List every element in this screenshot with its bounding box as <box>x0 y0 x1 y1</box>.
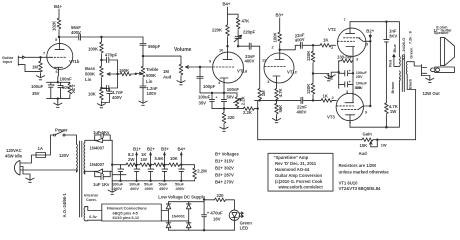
wire AC neutral <box>26 170 77 172</box>
resistor 8.2 2W <box>121 164 127 166</box>
svg-text:Lin: Lin <box>146 79 153 84</box>
transformer filament winding <box>83 208 86 221</box>
wire LV bottom rail <box>169 229 235 231</box>
svg-text:12W Out: 12W Out <box>423 91 441 96</box>
svg-text:220K: 220K <box>306 83 311 94</box>
resistor 5.6K filter <box>151 164 154 166</box>
wire cathode rail <box>352 57 354 93</box>
svg-text:50V: 50V <box>227 94 235 99</box>
svg-text:B3+: B3+ <box>276 13 284 18</box>
bridge rectifier 1N4001 <box>166 202 171 231</box>
resistor 1K 1W filter <box>137 164 140 166</box>
svg-text:(c)2010 G. Forrest Cook: (c)2010 G. Forrest Cook <box>275 179 323 184</box>
svg-text:unless marked otherwise: unless marked otherwise <box>339 170 390 175</box>
svg-text:2.2K: 2.2K <box>241 95 246 105</box>
svg-text:400V: 400V <box>112 95 122 100</box>
svg-text:1uF 1Kv: 1uF 1Kv <box>93 182 110 187</box>
svg-text:1M: 1M <box>32 65 38 70</box>
node plate VT1c <box>279 49 281 51</box>
cathode VT1c <box>273 75 280 77</box>
wire VT2 plate to OT <box>350 22 399 57</box>
svg-text:VT3: VT3 <box>327 115 335 120</box>
ground cathode network VT1b <box>54 102 62 107</box>
svg-text:Low Voltage DC Supply: Low Voltage DC Supply <box>158 194 206 199</box>
svg-text:Lin: Lin <box>85 77 92 82</box>
wire top rail tone stack <box>90 36 143 38</box>
svg-text:Hammond AO-44: Hammond AO-44 <box>275 167 310 172</box>
wire cathode bottom rail <box>212 108 243 110</box>
svg-text:400V: 400V <box>71 30 81 35</box>
resistor 1K grid stopper VT2 <box>313 44 320 46</box>
svg-text:7: 7 <box>344 17 346 22</box>
svg-text:550pF: 550pF <box>148 44 161 49</box>
capacitor 100uF 400V C2 <box>134 165 139 181</box>
grid VT1c dashed <box>265 66 287 68</box>
potentiometer 2.2K cathode trim <box>236 93 238 97</box>
svg-text:Brown: Brown <box>390 81 395 94</box>
wire to bridge <box>161 211 188 221</box>
capacitor 100nF 50V cathode <box>58 82 63 98</box>
svg-text:Blue: Blue <box>392 43 397 52</box>
svg-text:Green: Green <box>409 47 414 59</box>
svg-text:1W: 1W <box>390 109 397 114</box>
ground bass network <box>97 103 105 108</box>
svg-text:3: 3 <box>356 56 359 61</box>
svg-text:1W: 1W <box>141 157 148 162</box>
svg-text:Input: Input <box>3 59 13 64</box>
svg-text:7: 7 <box>349 121 351 126</box>
grid VT1b dashed <box>51 56 67 58</box>
svg-text:1A: 1A <box>38 146 43 151</box>
svg-text:7: 7 <box>43 51 45 56</box>
svg-text:16V: 16V <box>213 217 221 222</box>
control grid VT3 dashed <box>337 105 354 107</box>
node plate VT1b <box>58 36 60 38</box>
capacitor 4.7nF 400V <box>101 89 112 103</box>
svg-text:VT1 6U10: VT1 6U10 <box>339 181 359 186</box>
wire cathode top rail <box>200 92 237 94</box>
svg-text:B3+ 287V: B3+ 287V <box>215 173 234 178</box>
svg-text:2.2M: 2.2M <box>197 169 207 174</box>
capacitor 220pF variable boost <box>237 30 239 37</box>
svg-text:400V: 400V <box>297 110 307 115</box>
svg-text:VT1a: VT1a <box>237 69 248 74</box>
svg-text:9: 9 <box>209 58 212 63</box>
svg-text:+: + <box>215 95 218 100</box>
wire feedback bottom <box>258 139 362 141</box>
box title <box>268 153 333 191</box>
resistor 1M input <box>40 57 42 61</box>
capacitor 33nF 400V interstage <box>238 45 249 47</box>
wire secondary bottom to feedback <box>407 74 415 139</box>
capacitor 50uF 450V C5 <box>179 165 184 181</box>
svg-text:Aud: Aud <box>163 74 172 79</box>
svg-text:+ 470uF: + 470uF <box>207 211 223 216</box>
svg-text:309: 309 <box>355 85 362 90</box>
ground jack sleeve wire <box>22 65 41 72</box>
svg-text:47K: 47K <box>242 18 251 23</box>
wiper volume to grid VT1a <box>186 66 212 69</box>
ground treble <box>139 100 147 105</box>
svg-text:VT2&VT3 6BQ5/EL84: VT2&VT3 6BQ5/EL84 <box>339 186 382 191</box>
svg-text:1W: 1W <box>381 142 387 147</box>
ground cathode network <box>327 74 335 79</box>
svg-text:B2+: B2+ <box>147 147 155 152</box>
diode 1N4007 D1 <box>95 138 113 143</box>
resistor 4.7K 1W snubber <box>385 103 389 114</box>
screen grid VT3 dashed <box>342 108 359 110</box>
svg-text:B2+: B2+ <box>366 29 374 34</box>
svg-text:10: 10 <box>219 48 223 53</box>
wire secondary to jack <box>407 62 421 66</box>
svg-text:1N4007: 1N4007 <box>90 146 105 151</box>
svg-text:Bass: Bass <box>85 66 96 71</box>
box filament connections <box>102 204 162 221</box>
ground volume <box>177 80 185 85</box>
svg-text:400V: 400V <box>113 186 122 191</box>
capacitor 1nF 3KV snubber <box>384 22 389 103</box>
svg-text:+: + <box>152 167 155 172</box>
svg-text:100K: 100K <box>272 31 277 42</box>
svg-text:1K: 1K <box>323 38 329 43</box>
svg-text:4.7K: 4.7K <box>278 87 283 97</box>
capacitor 22nF 400V lower coupling <box>297 99 301 101</box>
AC plug <box>14 161 26 176</box>
cathode VT2 <box>346 47 355 58</box>
svg-text:2: 2 <box>331 45 334 50</box>
svg-text:Speaker: Speaker <box>434 30 449 35</box>
LED green <box>229 210 239 220</box>
capacitor bass lower bridge <box>101 60 117 91</box>
wire network bottom rail <box>47 99 70 103</box>
svg-text:1M: 1M <box>261 90 266 96</box>
ground grid leaks <box>325 76 333 81</box>
svg-text:Aud: Aud <box>359 151 368 156</box>
svg-text:10K: 10K <box>170 156 179 161</box>
svg-text:Resistors are 1/2W: Resistors are 1/2W <box>339 163 378 168</box>
svg-text:450V: 450V <box>145 186 154 191</box>
wire lower path <box>255 99 297 101</box>
resistor 220K grid VT3 <box>312 74 314 84</box>
wire plate node to coupling cap <box>59 36 77 38</box>
svg-text:220: 220 <box>217 193 225 198</box>
svg-text:102K: 102K <box>52 20 57 31</box>
svg-text:B3+: B3+ <box>161 147 169 152</box>
resistor 10K filter <box>165 164 169 166</box>
svg-text:5: 5 <box>55 37 58 42</box>
wire HV top to D1 <box>85 140 95 142</box>
svg-text:130-5W: 130-5W <box>337 55 353 60</box>
svg-text:220pF: 220pF <box>243 30 256 35</box>
svg-text:B+ Voltages: B+ Voltages <box>215 152 240 157</box>
capacitor 470uF 16V <box>203 198 205 200</box>
diode 1N4007 D2 <box>95 169 113 174</box>
svg-text:450V: 450V <box>159 186 168 191</box>
capacitor 50uF 450V C4 <box>162 165 167 181</box>
capacitor 50uF 450V C3 <box>148 165 153 181</box>
node grid/1M <box>39 56 41 58</box>
resistor 56K to ground <box>276 100 278 103</box>
wire rectifier output <box>112 140 126 181</box>
wire filament leads <box>85 206 102 220</box>
resistor 4.7K cathode VT1c <box>276 76 278 88</box>
svg-text:"Sparetime" Amp: "Sparetime" Amp <box>274 155 309 160</box>
svg-text:400V: 400V <box>130 186 139 191</box>
tube VT1c envelope <box>264 53 294 83</box>
resistor 1K grid stopper VT3 <box>312 99 314 101</box>
plate VT1a <box>227 46 229 59</box>
screen grid VT2 dashed <box>344 37 361 39</box>
svg-text:500K: 500K <box>146 73 157 78</box>
svg-text:220K: 220K <box>212 28 223 33</box>
svg-text:+: + <box>183 167 186 172</box>
label red center tap <box>393 54 400 66</box>
capacitor 56nF 400V coupling <box>77 36 79 38</box>
svg-text:220: 220 <box>228 115 236 120</box>
capacitor 22nF 400V upper coupling <box>301 42 303 48</box>
svg-text:B1+ 315V: B1+ 315V <box>215 159 234 164</box>
jack out female <box>422 65 427 76</box>
ground 56K <box>272 117 280 122</box>
svg-text:220K: 220K <box>306 50 311 61</box>
svg-text:5.6K: 5.6K <box>155 156 165 161</box>
transformer output primary <box>398 56 401 66</box>
svg-text:+: + <box>53 83 56 88</box>
resistor 2.2K feedback <box>243 107 254 111</box>
capacitor 100uF 400V C1 <box>118 165 123 181</box>
wire LV positive rail <box>169 200 205 202</box>
svg-text:Black: Black <box>408 78 413 89</box>
tube VT3 envelope <box>336 93 363 120</box>
potentiometer Treble 500K Lin <box>142 56 144 66</box>
svg-text:2W: 2W <box>128 157 135 162</box>
wire B4+ to plate resistor <box>58 9 60 18</box>
svg-text:Conn.: Conn. <box>86 197 97 202</box>
svg-text:VT1b: VT1b <box>69 59 80 64</box>
svg-text:35V: 35V <box>199 100 207 105</box>
resistor 100K plate load VT1c <box>279 18 281 32</box>
capacitor 550pF treble <box>142 37 144 44</box>
resistor 2.2M bleeder <box>181 165 194 168</box>
wire treble top to volume <box>143 55 181 57</box>
wiper bass <box>107 73 118 76</box>
wiper treble <box>136 72 143 75</box>
transformer power primary <box>76 144 79 172</box>
resistor 220K plate load VT1a <box>227 14 229 25</box>
cathode VT1b <box>55 67 63 82</box>
capacitor 100pF grid <box>199 67 201 77</box>
svg-text:10K: 10K <box>360 143 369 148</box>
capacitor 100uF 25V cathode bypass <box>339 61 353 88</box>
grid VT1a dashed <box>213 66 235 68</box>
potentiometer 10K Aud gain <box>362 138 373 142</box>
svg-text:100nF: 100nF <box>227 87 240 92</box>
svg-text:Treble: Treble <box>146 67 159 72</box>
resistor 2.2K cathode VT1b <box>69 82 71 83</box>
svg-text:100V: 100V <box>147 91 157 96</box>
svg-text:B2+ 302V: B2+ 302V <box>215 166 234 171</box>
svg-text:120V: 120V <box>59 153 69 158</box>
svg-text:1uF 1Kv: 1uF 1Kv <box>93 130 110 135</box>
svg-text:Gain: Gain <box>363 131 373 136</box>
plate VT1b <box>59 37 61 49</box>
potentiometer 1M Aud volume <box>180 56 182 64</box>
screen wire VT3 to rail <box>359 106 371 109</box>
capacitor 100uF 35V cathode VT1a <box>209 93 214 109</box>
svg-text:Volume: Volume <box>174 47 192 53</box>
wire jack to grid <box>25 56 52 58</box>
svg-text:470pF: 470pF <box>105 53 118 58</box>
svg-text:VT2: VT2 <box>328 27 336 32</box>
svg-text:3KV: 3KV <box>389 33 397 38</box>
svg-text:Red: Red <box>388 59 393 67</box>
wire grid leak midpoint to ground <box>313 74 329 76</box>
plug tip out <box>430 68 435 72</box>
svg-text:B4+: B4+ <box>223 2 231 7</box>
wire cathode to network <box>47 81 70 83</box>
wire plate VT1c to VT2 <box>280 45 297 50</box>
svg-text:10K: 10K <box>88 92 97 97</box>
ground VT1a cathode <box>220 126 228 131</box>
node plate VT1a <box>226 45 228 47</box>
svg-text:B4+: B4+ <box>178 147 186 152</box>
svg-text:+: + <box>349 68 352 73</box>
node treble top <box>142 55 144 57</box>
capacitor 1uF 1KV snubber D2 <box>95 171 111 179</box>
transformer output secondary <box>405 62 408 75</box>
ground PSU <box>108 189 116 194</box>
plate VT3 <box>349 115 351 127</box>
wiper gain <box>370 140 378 147</box>
plate VT1c <box>279 50 281 60</box>
potentiometer Bass 500K Lin <box>100 60 102 66</box>
wire to VT1c grid <box>259 46 261 66</box>
svg-text:56K: 56K <box>278 104 283 113</box>
resistor 220K grid VT2 <box>312 44 314 46</box>
svg-text:120VAC: 120VAC <box>6 148 22 153</box>
svg-text:100uF: 100uF <box>31 84 44 89</box>
svg-text:25V: 25V <box>356 74 363 79</box>
svg-text:Guitar Amp Conversion: Guitar Amp Conversion <box>275 173 322 178</box>
svg-text:400V: 400V <box>245 58 255 63</box>
transformer output core <box>402 56 404 92</box>
svg-text:2.2K: 2.2K <box>243 110 253 115</box>
plate VT2 <box>349 22 351 34</box>
svg-text:B1+: B1+ <box>133 147 141 152</box>
svg-text:1M: 1M <box>163 69 169 74</box>
svg-text:35V: 35V <box>32 91 40 96</box>
svg-text:1K: 1K <box>323 94 329 99</box>
cathode VT1a <box>220 78 228 93</box>
svg-text:B4+: B4+ <box>54 4 62 9</box>
capacitor 100nF 50V cathode VT1a <box>221 93 226 109</box>
tube VT2 envelope <box>338 28 366 56</box>
svg-text:2: 2 <box>332 95 335 100</box>
svg-text:B4+ 270V: B4+ 270V <box>215 180 234 185</box>
transformer power core <box>80 141 82 217</box>
capacitor 100uF 35V cathode bypass <box>48 82 53 98</box>
control grid VT2 dashed <box>338 40 355 42</box>
wire B4+ down <box>227 7 229 14</box>
svg-text:Rev 'D' Dec. 31, 2011: Rev 'D' Dec. 31, 2011 <box>275 161 317 166</box>
svg-text:A.O.-24/66-1: A.O.-24/66-1 <box>62 193 67 218</box>
svg-text:1N4001: 1N4001 <box>172 214 186 219</box>
svg-text:1N4007: 1N4007 <box>90 162 105 167</box>
wire VT3 plate to OT <box>350 93 399 128</box>
ground AC plug <box>23 167 30 178</box>
wire feedback loop down <box>257 109 259 140</box>
svg-text:A.O.-24/26-O: A.O.-24/26-O <box>401 38 406 61</box>
cathode VT3 top <box>345 93 354 103</box>
transformer HV secondary <box>83 143 86 175</box>
capacitor 100uF 50V cathode bypass2 <box>339 82 353 87</box>
svg-text:9: 9 <box>366 42 369 47</box>
ground 1M <box>36 75 44 80</box>
ground jack out <box>422 76 430 78</box>
wire PSU ground rail <box>112 181 194 189</box>
svg-text:www.solorb.com/elect: www.solorb.com/elect <box>278 185 324 190</box>
resistor 10K bass bottom <box>100 88 102 89</box>
resistor 220 cathode lower <box>223 109 225 113</box>
svg-text:6.3v: 6.3v <box>89 214 97 219</box>
resistor 100K tone <box>100 37 102 42</box>
switch power <box>46 135 54 155</box>
wire ground stub cathode <box>331 72 339 74</box>
svg-text:6: 6 <box>56 69 59 74</box>
speaker driver <box>440 38 454 66</box>
svg-text:7.2k : 8: 7.2k : 8 <box>407 30 412 44</box>
svg-text:150K: 150K <box>119 68 130 73</box>
resistor 100K plate load VT1b <box>57 18 61 29</box>
tube V T1b envelope <box>47 43 73 69</box>
svg-text:100pF: 100pF <box>203 84 216 89</box>
svg-text:500K: 500K <box>85 72 96 77</box>
svg-text:100K: 100K <box>88 47 99 52</box>
svg-text:+: + <box>122 167 125 172</box>
svg-text:VT1c: VT1c <box>287 70 298 75</box>
svg-text:100uF: 100uF <box>198 95 211 100</box>
resistor 1M grid leak VT1c <box>259 67 261 89</box>
svg-text:2: 2 <box>272 45 275 50</box>
svg-text:100nF: 100nF <box>60 77 73 82</box>
capacitor 1.2nF 100V treble <box>142 85 144 87</box>
svg-text:+: + <box>166 167 169 172</box>
svg-text:450V: 450V <box>176 186 185 191</box>
resistor 47K boost <box>228 14 239 18</box>
wire HV bottom to D2 <box>85 171 95 174</box>
svg-text:2.2K: 2.2K <box>71 85 76 95</box>
speaker base plug body <box>435 67 455 73</box>
svg-text:6U10 pins 6-12: 6U10 pins 6-12 <box>113 215 140 220</box>
svg-text:+: + <box>349 79 352 84</box>
svg-text:9: 9 <box>365 110 368 115</box>
svg-text:+: + <box>138 167 141 172</box>
screen wire VT2 to rail <box>359 38 371 42</box>
svg-text:LED: LED <box>240 226 248 231</box>
svg-text:45W Idle: 45W Idle <box>5 154 23 159</box>
resistor 150K <box>118 73 120 75</box>
svg-text:400V: 400V <box>294 37 305 43</box>
tube VT1a envelope <box>213 52 244 83</box>
